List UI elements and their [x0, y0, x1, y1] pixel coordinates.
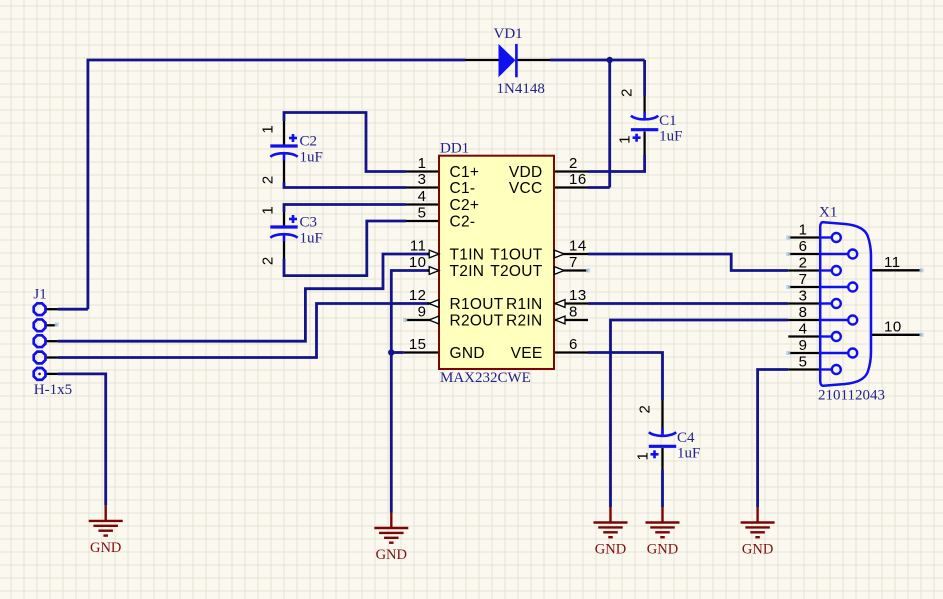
svg-text:GND: GND — [647, 542, 678, 558]
svg-text:GND: GND — [595, 542, 626, 558]
svg-text:1uF: 1uF — [677, 445, 700, 461]
svg-text:4: 4 — [799, 321, 808, 338]
svg-text:H-1x5: H-1x5 — [34, 382, 72, 398]
svg-text:1: 1 — [418, 155, 427, 172]
svg-text:1: 1 — [260, 125, 277, 133]
svg-text:X1: X1 — [819, 205, 837, 221]
svg-text:10: 10 — [409, 254, 427, 271]
svg-text:15: 15 — [409, 336, 427, 353]
svg-text:1N4148: 1N4148 — [497, 81, 545, 97]
svg-text:GND: GND — [90, 540, 121, 556]
svg-text:3: 3 — [418, 171, 427, 188]
svg-text:12: 12 — [409, 287, 427, 304]
svg-text:GND: GND — [376, 547, 407, 563]
svg-text:9: 9 — [799, 337, 808, 354]
svg-text:C1-: C1- — [450, 180, 476, 197]
svg-text:10: 10 — [884, 318, 902, 335]
svg-text:2: 2 — [260, 257, 277, 265]
svg-text:13: 13 — [569, 287, 587, 304]
svg-text:VEE: VEE — [511, 345, 543, 362]
svg-text:5: 5 — [799, 354, 808, 371]
svg-text:C2: C2 — [300, 134, 318, 150]
svg-text:2: 2 — [799, 255, 808, 272]
svg-text:6: 6 — [569, 336, 578, 353]
svg-text:14: 14 — [569, 238, 587, 255]
svg-text:2: 2 — [569, 155, 578, 172]
svg-text:C1: C1 — [659, 113, 677, 129]
svg-text:2: 2 — [619, 89, 636, 97]
svg-text:C2-: C2- — [450, 214, 476, 231]
svg-text:GND: GND — [450, 345, 485, 362]
svg-text:C2+: C2+ — [450, 197, 480, 214]
svg-text:C3: C3 — [300, 215, 318, 231]
svg-text:1: 1 — [617, 136, 634, 144]
svg-text:4: 4 — [418, 188, 427, 205]
svg-text:6: 6 — [799, 238, 808, 255]
svg-text:2: 2 — [260, 176, 277, 184]
svg-text:9: 9 — [418, 304, 427, 321]
svg-text:1uF: 1uF — [300, 231, 323, 247]
svg-text:T2OUT: T2OUT — [490, 263, 543, 280]
svg-text:DD1: DD1 — [440, 141, 469, 157]
svg-text:11: 11 — [884, 254, 901, 271]
svg-text:5: 5 — [418, 205, 427, 222]
svg-text:R1OUT: R1OUT — [450, 296, 504, 313]
svg-text:210112043: 210112043 — [818, 388, 885, 404]
svg-text:1: 1 — [260, 206, 277, 214]
svg-text:8: 8 — [569, 304, 578, 321]
svg-text:GND: GND — [742, 542, 773, 558]
svg-text:3: 3 — [799, 288, 808, 305]
svg-text:R1IN: R1IN — [506, 296, 543, 313]
svg-text:R2OUT: R2OUT — [450, 313, 504, 330]
svg-text:R2IN: R2IN — [506, 313, 543, 330]
svg-text:T1OUT: T1OUT — [490, 247, 543, 264]
svg-text:VD1: VD1 — [494, 26, 523, 42]
svg-text:T1IN: T1IN — [450, 247, 485, 264]
svg-text:VCC: VCC — [509, 180, 543, 197]
svg-text:T2IN: T2IN — [450, 263, 485, 280]
svg-text:1uF: 1uF — [659, 129, 682, 145]
svg-text:7: 7 — [799, 271, 808, 288]
svg-text:C1+: C1+ — [450, 164, 480, 181]
svg-text:J1: J1 — [33, 287, 46, 303]
svg-text:VDD: VDD — [509, 164, 543, 181]
svg-text:16: 16 — [569, 171, 587, 188]
svg-text:7: 7 — [569, 254, 578, 271]
svg-text:MAX232CWE: MAX232CWE — [440, 370, 531, 386]
svg-text:1: 1 — [635, 452, 652, 460]
svg-text:1uF: 1uF — [300, 150, 323, 166]
svg-text:8: 8 — [799, 304, 808, 321]
svg-text:2: 2 — [637, 405, 654, 413]
svg-text:11: 11 — [410, 238, 427, 255]
svg-text:C4: C4 — [677, 430, 695, 446]
svg-text:1: 1 — [799, 222, 808, 239]
